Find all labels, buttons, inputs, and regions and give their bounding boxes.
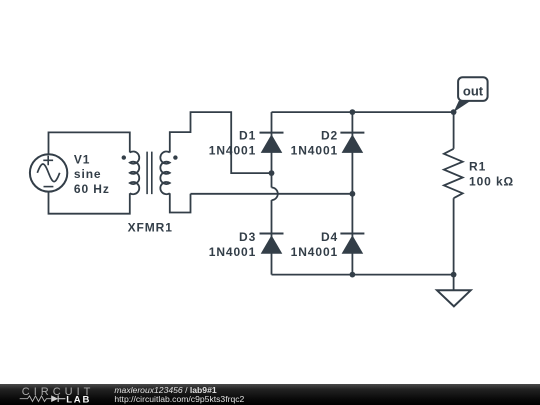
svg-text:LAB: LAB [66,394,91,405]
junction node D1 anode / secondary top [269,170,275,176]
diode D2 [340,133,364,153]
label R1 100 kOhm [469,160,514,189]
wire: R1 bottom to bottom rail [453,198,455,274]
label V1 sine 60 Hz [74,152,110,196]
wire: right bridge column (D2/D4) [351,112,353,275]
wire: V1 bottom to transformer primary bottom [49,192,130,214]
svg-text:1N4001: 1N4001 [209,245,256,259]
wire: node to ground [453,275,455,291]
label D1 1N4001 [209,129,256,158]
wire: left column D1 anode to hop [271,173,273,187]
wire: secondary bottom to middle rail [170,193,191,212]
svg-text:100 kΩ: 100 kΩ [469,175,514,189]
svg-text:V1: V1 [74,152,90,166]
svg-text:1N4001: 1N4001 [291,144,338,158]
footer bar [0,384,540,405]
label XFMR1 [128,220,173,234]
svg-text:out: out [463,84,484,99]
svg-text:1N4001: 1N4001 [209,144,256,158]
transformer XFMR1 core [147,152,152,195]
wire: hop to D3 and bottom rail [271,200,273,275]
resistor R1 [444,149,463,198]
svg-text:D2: D2 [321,129,338,143]
svg-text:sine: sine [74,167,102,181]
label D3 1N4001 [209,230,256,259]
transformer XFMR1 secondary polarity dot [173,155,177,159]
voltage source V1 (sine) [30,154,67,191]
wire: bottom rail to ground column [272,274,454,276]
junction node D2 cathode / top rail [350,109,356,115]
svg-text:R1: R1 [469,160,486,174]
diode D3 [260,234,284,254]
junction node R1 bottom / bottom rail [451,272,457,278]
junction node D2 anode / middle rail [350,191,356,197]
wire: out node to R1 top [453,112,455,149]
label D2 1N4001 [291,129,338,158]
svg-text:D4: D4 [321,230,338,244]
wire: V1 top to transformer primary top [49,132,130,154]
logo CIRCUIT LAB [20,386,95,405]
wire: left bridge column upper (D1) [271,112,273,173]
junction node D4 anode / bottom rail [350,272,356,278]
label D4 1N4001 [291,230,338,259]
svg-text:D3: D3 [239,230,256,244]
svg-text:60 Hz: 60 Hz [74,182,110,196]
transformer XFMR1 primary polarity dot [122,155,126,159]
ground [437,290,471,306]
wire: top rail D1 cathode to out node [272,111,454,113]
junction node out [451,109,457,115]
diode D1 [260,133,284,153]
svg-text:1N4001: 1N4001 [291,245,338,259]
footer credit text [114,385,244,404]
transformer XFMR1 secondary coil [160,151,169,194]
wire: middle rail to D2/D4 node [191,193,353,195]
svg-text:XFMR1: XFMR1 [128,220,173,234]
transformer XFMR1 primary coil [130,151,139,194]
svg-text:D1: D1 [239,129,256,143]
diode D4 [340,234,364,254]
wire: secondary top to D1 anode node [170,112,272,173]
wire hop over middle rail [272,188,278,201]
svg-text:http://circuitlab.com/c9p5kts3: http://circuitlab.com/c9p5kts3frqc2 [114,394,244,404]
node flag out [454,77,488,112]
